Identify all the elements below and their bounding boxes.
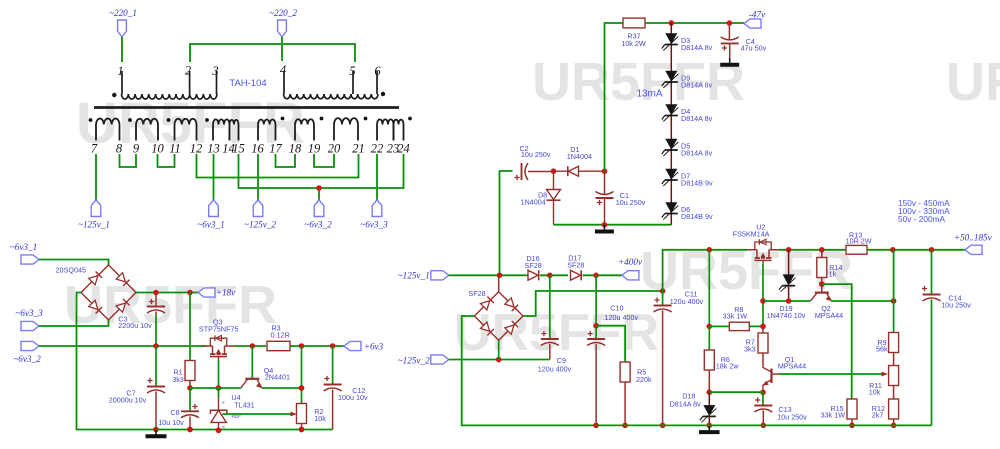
transistor Q2 MPSA44 xyxy=(815,292,829,294)
capacitor C2 10u 250v xyxy=(521,163,523,180)
svg-text:20000u 10v: 20000u 10v xyxy=(109,396,147,405)
transistor Q1 MPSA44 xyxy=(770,369,772,384)
svg-text:~220_2: ~220_2 xyxy=(269,8,297,18)
svg-text:UR5FFR: UR5FFR xyxy=(532,52,745,112)
junction xyxy=(496,357,502,363)
svg-text:TAH-104: TAH-104 xyxy=(229,78,266,89)
junction xyxy=(299,343,305,349)
junction xyxy=(299,427,305,433)
capacitor C4 47u 50v xyxy=(728,23,730,41)
svg-text:MPSA44: MPSA44 xyxy=(815,311,843,320)
svg-text:56k: 56k xyxy=(876,345,888,354)
ground (C4) xyxy=(729,58,731,63)
svg-text:120u 400v: 120u 400v xyxy=(670,297,704,306)
resistor R8 33k 1W xyxy=(708,250,710,327)
junction xyxy=(707,247,713,253)
svg-text:~125v_1: ~125v_1 xyxy=(398,270,430,280)
junction xyxy=(602,168,608,174)
junction xyxy=(216,428,222,434)
junction xyxy=(153,343,159,349)
wire jumper 10-11 xyxy=(158,154,175,167)
resistor R12 2k7 xyxy=(893,386,895,400)
wire R37 to -47v xyxy=(645,22,744,24)
wire U2 gate xyxy=(762,264,764,327)
junction xyxy=(929,247,935,253)
diode D8 1N4004 xyxy=(553,171,555,189)
bridge rectifier 20SQ045 xyxy=(81,265,109,293)
junction xyxy=(299,427,305,433)
wire R14 to R15 column xyxy=(822,284,852,399)
svg-text:D814A 8v: D814A 8v xyxy=(681,80,713,89)
port ~6v3_1 xyxy=(209,200,219,217)
port ~6v3_1 (left circuit) xyxy=(21,255,39,264)
wire bridge minus xyxy=(77,293,157,430)
shunt regulator U4 TL431 xyxy=(218,388,220,398)
ground (right circuit) xyxy=(708,425,710,430)
transformer secondary winding 18-19 xyxy=(295,119,314,140)
junction xyxy=(153,427,159,433)
junction xyxy=(727,20,733,26)
svg-text:~6v3_1: ~6v3_1 xyxy=(197,220,224,230)
diode D17 SF28 xyxy=(571,270,581,280)
wire R9 column up xyxy=(893,250,895,301)
wire bridge plus to +18v xyxy=(136,292,198,294)
junction xyxy=(497,273,503,279)
transformer primary winding 1-3 xyxy=(122,94,217,99)
wire Q3 to R3 xyxy=(235,345,267,347)
resistor R13 10R 2W xyxy=(846,245,867,254)
junction xyxy=(707,324,713,330)
wire bridge plus xyxy=(523,291,663,316)
wire xyxy=(190,44,355,62)
transformer secondary winding 11-12 xyxy=(175,119,197,141)
svg-text:20SQ045: 20SQ045 xyxy=(56,265,86,274)
port ~220_2 xyxy=(278,20,287,37)
svg-text:6: 6 xyxy=(374,64,381,78)
transformer secondary winding 22-23-24 xyxy=(377,119,394,140)
svg-text:STP75NF75: STP75NF75 xyxy=(199,325,239,334)
resistor R15 33k 1W xyxy=(847,399,857,419)
svg-text:8: 8 xyxy=(116,142,123,156)
svg-text:10u 250v: 10u 250v xyxy=(616,198,646,207)
transformer TAH-104 core xyxy=(94,106,399,109)
wire xyxy=(39,260,109,266)
svg-text:1: 1 xyxy=(117,64,123,78)
junction xyxy=(891,298,897,304)
junction xyxy=(330,343,336,349)
svg-text:15: 15 xyxy=(232,142,245,156)
wire Q3 gate xyxy=(218,360,220,388)
svg-text:0.12R: 0.12R xyxy=(271,331,290,340)
wire Q1 base to R11 wiper xyxy=(772,373,780,375)
wire Q4 emitter to R2 xyxy=(262,387,302,389)
svg-text:10k: 10k xyxy=(314,414,326,423)
svg-text:18k 2w: 18k 2w xyxy=(716,361,740,370)
svg-text:13mA: 13mA xyxy=(636,89,662,100)
junction xyxy=(891,423,897,429)
svg-text:SF28: SF28 xyxy=(525,261,542,270)
wire xyxy=(281,37,283,61)
junction xyxy=(660,288,666,294)
potentiometer R11 10k xyxy=(893,353,895,366)
wire ground rail (left circuit) xyxy=(156,429,333,431)
svg-text:D814A 8v: D814A 8v xyxy=(681,43,713,52)
junction xyxy=(299,385,305,391)
svg-text:~125v_2: ~125v_2 xyxy=(244,220,276,230)
junction xyxy=(593,423,599,429)
zener D19 1N4740 10v xyxy=(788,250,790,275)
bridge rectifier SF28 xyxy=(474,292,498,316)
svg-text:C10: C10 xyxy=(610,304,623,313)
port +18v xyxy=(198,288,215,297)
port +50..185v xyxy=(965,245,982,254)
capacitor C10 120u 400v xyxy=(595,275,597,338)
resistor R14 1k xyxy=(821,250,823,258)
junction xyxy=(849,423,855,429)
capacitor C8 10u 10v xyxy=(189,388,191,411)
resistor R6 18k 2w xyxy=(708,326,710,350)
diode D16 SF28 xyxy=(528,270,538,280)
junction xyxy=(760,390,766,396)
wire pin13 to ~6v3_1 xyxy=(213,154,215,200)
port ~125v_1 (right) xyxy=(431,271,449,280)
svg-text:10u 10v: 10u 10v xyxy=(158,418,184,427)
wire D8 to zener chain bottom xyxy=(554,224,672,226)
wire C2 feed from ~125v_1 xyxy=(500,171,513,275)
transformer secondary winding 20-21 xyxy=(334,118,358,140)
svg-text:10k 2W: 10k 2W xyxy=(621,39,646,48)
port ~6v3_2 (left circuit) xyxy=(21,341,39,350)
wire ~6v3_2 rail xyxy=(39,345,202,347)
resistor R3 0.12R xyxy=(267,341,290,350)
svg-text:7: 7 xyxy=(91,142,98,156)
resistor R37 10k 2W xyxy=(605,23,624,171)
svg-text:220k: 220k xyxy=(636,375,652,384)
svg-text:10u 250v: 10u 250v xyxy=(521,150,551,159)
junction xyxy=(786,298,792,304)
svg-text:~6v3_1: ~6v3_1 xyxy=(10,242,37,252)
junction xyxy=(786,247,792,253)
svg-text:2k7: 2k7 xyxy=(872,411,884,420)
wire pin15 to pin24 xyxy=(239,154,404,188)
svg-text:50v - 200mA: 50v - 200mA xyxy=(898,214,946,224)
svg-text:D814A 8v: D814A 8v xyxy=(681,114,713,123)
zener D3 D814A 8v xyxy=(666,34,677,44)
wire ground rail (right circuit) xyxy=(596,424,932,426)
wire bridge minus down xyxy=(462,316,596,425)
wire Q2 emitter to R9 xyxy=(831,300,893,302)
diode D1 1N4004 xyxy=(554,170,568,172)
wire xyxy=(121,37,123,62)
zener D9 D814A 8v xyxy=(666,71,677,81)
zener D18 D814A 8v xyxy=(708,392,710,405)
svg-text:16: 16 xyxy=(251,142,264,156)
svg-text:3k3: 3k3 xyxy=(172,375,184,384)
zener D6 D814B 9v xyxy=(666,203,677,213)
svg-text:~6v3_2: ~6v3_2 xyxy=(13,354,41,364)
svg-text:~220_1: ~220_1 xyxy=(109,8,137,18)
svg-text:120u 400v: 120u 400v xyxy=(605,313,639,322)
transformer secondary winding 16-17 xyxy=(258,119,276,140)
transistor Q3 STP75NF75 xyxy=(202,345,206,347)
svg-text:10R 2W: 10R 2W xyxy=(846,236,872,245)
wire pin7 to ~125v_1 xyxy=(95,154,97,200)
svg-text:5: 5 xyxy=(349,64,355,78)
svg-text:D814A 8v: D814A 8v xyxy=(681,148,713,157)
ground (left) xyxy=(155,430,157,435)
capacitor C1 10u 250v xyxy=(604,171,606,194)
svg-text:10k: 10k xyxy=(869,388,881,397)
svg-text:24: 24 xyxy=(397,142,410,156)
svg-text:+50..185v: +50..185v xyxy=(954,233,993,243)
wire gate line xyxy=(763,300,810,302)
capacitor C12 100u 10v xyxy=(332,346,334,384)
junction xyxy=(593,323,599,329)
capacitor C11 120u 400v xyxy=(663,250,710,291)
junction xyxy=(761,423,767,429)
transformer polarity dots xyxy=(89,118,93,122)
wire R3 to +6v3 xyxy=(290,345,344,347)
svg-text:SF28: SF28 xyxy=(468,289,485,298)
zener D5 D814A 8v xyxy=(666,139,677,149)
svg-text:19: 19 xyxy=(308,142,321,156)
svg-text:10: 10 xyxy=(151,142,164,156)
svg-text:2: 2 xyxy=(185,64,191,78)
svg-text:+18v: +18v xyxy=(216,288,236,298)
port ~6v3_3 xyxy=(372,200,382,217)
wire ~6v3_2 tap xyxy=(318,188,320,200)
capacitor C13 10u 250v xyxy=(762,392,764,405)
port ~125v_1 xyxy=(91,200,101,217)
capacitor C14 10u 250v xyxy=(931,250,933,294)
port ~220_1 xyxy=(118,20,127,37)
wire jumper 17-18 xyxy=(276,154,296,167)
svg-text:120u 400v: 120u 400v xyxy=(538,364,572,373)
junction xyxy=(669,20,675,26)
svg-text:2N4401: 2N4401 xyxy=(265,373,290,382)
svg-text:9: 9 xyxy=(133,142,140,156)
zener chain wire xyxy=(670,23,672,225)
svg-text:17: 17 xyxy=(269,142,282,156)
junction xyxy=(299,385,305,391)
transistor Q4 2N4401 xyxy=(251,346,253,379)
wire rail U2 to R13 xyxy=(779,249,846,251)
junction xyxy=(593,273,599,279)
junction xyxy=(890,247,896,253)
junction xyxy=(760,298,766,304)
junction xyxy=(707,389,713,395)
capacitor C3 2200u 10v xyxy=(155,293,157,307)
svg-text:TL431: TL431 xyxy=(234,401,254,410)
port ~125v_2 xyxy=(253,200,263,217)
junction xyxy=(602,222,608,228)
svg-text:UR5FFR: UR5FFR xyxy=(946,52,1000,112)
wire bridge bottom xyxy=(498,340,500,359)
resistor R1 3k3 xyxy=(189,293,191,362)
svg-text:47u 50v: 47u 50v xyxy=(741,44,767,53)
svg-text:1N4004: 1N4004 xyxy=(567,152,592,161)
junction xyxy=(760,324,766,330)
svg-text:100u 10v: 100u 10v xyxy=(338,393,368,402)
svg-text:11: 11 xyxy=(169,142,181,156)
junction xyxy=(216,428,222,434)
svg-text:13: 13 xyxy=(207,142,220,156)
svg-text:20: 20 xyxy=(328,142,341,156)
svg-text:3k3: 3k3 xyxy=(744,344,756,353)
wire base line (R1/TL431/Q3 gate) xyxy=(190,387,241,389)
resistor R9 56k xyxy=(893,301,895,333)
regulator U2 FS5KM14A xyxy=(747,249,779,251)
junction xyxy=(316,185,322,191)
wire output rail xyxy=(709,249,747,251)
svg-text:D814B 9v: D814B 9v xyxy=(681,178,713,187)
transformer secondary winding 9-10 xyxy=(136,119,158,141)
junction xyxy=(216,385,222,391)
wire ~125v_1 line xyxy=(449,274,528,276)
junction xyxy=(153,290,159,296)
wire R13 to output port xyxy=(867,249,965,251)
port -47v xyxy=(744,19,761,28)
svg-text:×: × xyxy=(222,400,225,406)
junction xyxy=(551,168,557,174)
wire TL431 REF to R2 wiper xyxy=(223,413,292,415)
junction xyxy=(187,427,193,433)
svg-text:3: 3 xyxy=(211,64,218,78)
svg-text:4: 4 xyxy=(280,63,286,77)
wire bridge top xyxy=(498,275,500,291)
resistor R5 220k xyxy=(596,326,625,362)
svg-text:10u 250v: 10u 250v xyxy=(777,412,807,421)
transformer secondary winding 13-14-15 xyxy=(213,119,230,140)
svg-text:1N4740 10v: 1N4740 10v xyxy=(767,311,806,320)
resistor R7 3k3 xyxy=(762,326,764,333)
junction xyxy=(547,273,553,279)
svg-text:1N4004: 1N4004 xyxy=(521,197,546,206)
potentiometer R2 10k xyxy=(301,346,303,405)
wire xyxy=(39,320,109,326)
svg-text:+6v3: +6v3 xyxy=(364,342,384,352)
junction xyxy=(707,423,713,429)
wire pin16 to ~125v_2 xyxy=(257,154,259,200)
svg-text:MPSA44: MPSA44 xyxy=(778,361,806,370)
svg-text:~6v3_2: ~6v3_2 xyxy=(304,220,332,230)
transformer secondary winding 7-8 xyxy=(96,118,120,140)
junction xyxy=(819,247,825,253)
port ~6v3_3 (left circuit) xyxy=(21,321,39,330)
ground (C1) xyxy=(603,225,605,230)
svg-text:18: 18 xyxy=(289,142,302,156)
junction xyxy=(622,423,628,429)
svg-text:D814A 8v: D814A 8v xyxy=(670,399,702,408)
svg-text:C8: C8 xyxy=(170,408,179,417)
svg-text:~125v_2: ~125v_2 xyxy=(398,355,430,365)
port ~6v3_2 xyxy=(314,200,324,217)
junction xyxy=(250,343,256,349)
wire pin22 to ~6v3_3 xyxy=(376,154,378,200)
wire jumper 8-9 xyxy=(120,154,137,167)
svg-text:12: 12 xyxy=(190,142,203,156)
wire jumper 19-20 xyxy=(314,154,334,167)
capacitor C7 20000u 10v xyxy=(155,346,157,386)
svg-text:10u 250v: 10u 250v xyxy=(941,300,971,309)
svg-text:~6v3_3: ~6v3_3 xyxy=(15,308,43,318)
port +6v3 xyxy=(344,341,361,350)
capacitor C9 120u 400v xyxy=(549,275,551,338)
junction xyxy=(187,290,193,296)
svg-text:-47v: -47v xyxy=(749,9,766,19)
wire ~125v_2 line xyxy=(449,359,550,361)
svg-text:~125v_1: ~125v_1 xyxy=(78,220,110,230)
transformer primary winding 4-6 xyxy=(284,94,379,99)
svg-text:~6v3_3: ~6v3_3 xyxy=(360,220,388,230)
svg-text:22: 22 xyxy=(371,142,384,156)
svg-text:33k 1W: 33k 1W xyxy=(723,312,748,321)
svg-text:D814B 9v: D814B 9v xyxy=(681,212,713,221)
svg-text:1k: 1k xyxy=(829,270,837,279)
junction xyxy=(187,385,193,391)
wire jumper 12-21 xyxy=(197,154,359,178)
svg-text:2200u 10v: 2200u 10v xyxy=(118,321,152,330)
port +400v xyxy=(622,271,639,280)
port ~125v_2 (right) xyxy=(431,355,449,364)
junction xyxy=(187,427,193,433)
zener D7 D814B 9v xyxy=(666,169,677,179)
junction xyxy=(819,281,825,287)
junction xyxy=(660,423,666,429)
zener D4 D814A 8v xyxy=(666,105,677,115)
svg-text:21: 21 xyxy=(352,142,365,156)
svg-text:33k 1W: 33k 1W xyxy=(821,411,846,420)
svg-text:+400v: +400v xyxy=(618,257,643,267)
svg-text:FS5KM14A: FS5KM14A xyxy=(733,230,770,239)
svg-text:SF28: SF28 xyxy=(567,260,584,269)
